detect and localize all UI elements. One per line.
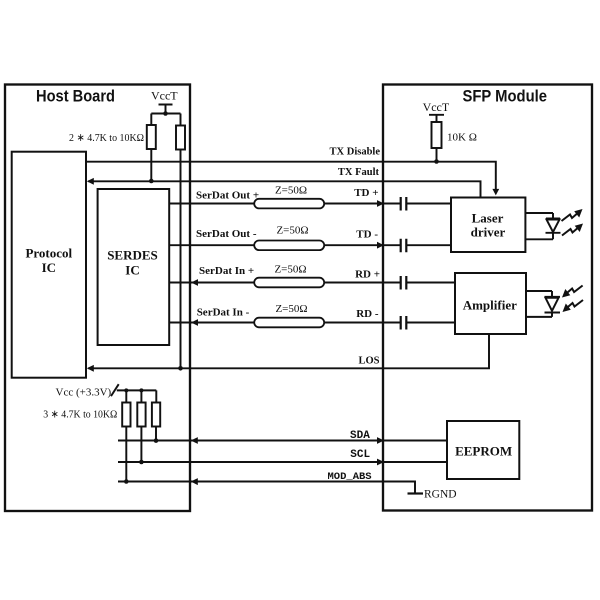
svg-text:RD -: RD - — [356, 308, 379, 320]
svg-text:EEPROM: EEPROM — [455, 444, 512, 459]
svg-text:MOD_ABS: MOD_ABS — [328, 471, 372, 483]
svg-text:IC: IC — [125, 262, 139, 277]
svg-text:SerDat Out -: SerDat Out - — [196, 228, 257, 240]
svg-text:VccT: VccT — [423, 100, 450, 114]
svg-text:SerDat Out +: SerDat Out + — [196, 190, 259, 202]
svg-text:SFP Module: SFP Module — [463, 87, 548, 106]
svg-text:SCL: SCL — [350, 449, 370, 461]
svg-text:driver: driver — [471, 224, 506, 239]
svg-text:SDA: SDA — [350, 430, 370, 442]
svg-text:Amplifier: Amplifier — [463, 298, 517, 313]
svg-text:Z=50Ω: Z=50Ω — [276, 224, 308, 236]
svg-text:LOS: LOS — [358, 356, 379, 367]
svg-text:SERDES: SERDES — [107, 248, 158, 263]
svg-text:10K Ω: 10K Ω — [447, 132, 477, 144]
svg-text:Laser: Laser — [472, 211, 504, 226]
svg-text:Z=50Ω: Z=50Ω — [274, 264, 306, 276]
svg-text:Z=50Ω: Z=50Ω — [275, 303, 307, 315]
svg-text:3 ∗ 4.7K to 10KΩ: 3 ∗ 4.7K to 10KΩ — [43, 409, 117, 421]
svg-text:RGND: RGND — [424, 489, 457, 501]
svg-text:TX Disable: TX Disable — [330, 147, 381, 158]
svg-text:Z=50Ω: Z=50Ω — [275, 185, 307, 197]
svg-text:TX Fault: TX Fault — [338, 167, 380, 178]
svg-text:TD +: TD + — [354, 187, 378, 199]
svg-text:IC: IC — [42, 260, 56, 275]
svg-text:SerDat In +: SerDat In + — [199, 265, 254, 277]
svg-text:Vcc (+3.3V): Vcc (+3.3V) — [56, 387, 112, 399]
svg-text:SerDat In -: SerDat In - — [197, 307, 250, 319]
svg-text:RD +: RD + — [355, 269, 380, 281]
svg-text:VccT: VccT — [151, 89, 178, 103]
svg-text:TD -: TD - — [356, 229, 378, 241]
svg-text:2 ∗ 4.7K to 10KΩ: 2 ∗ 4.7K to 10KΩ — [69, 132, 144, 144]
svg-text:Host Board: Host Board — [36, 87, 115, 106]
svg-text:Protocol: Protocol — [25, 246, 72, 261]
